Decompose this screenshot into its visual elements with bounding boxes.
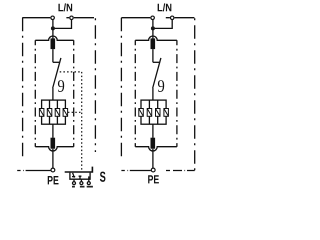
outer enclosure bottom edge (right) <box>121 170 194 172</box>
node junction (right) <box>151 26 155 30</box>
varistor cell 2 (right) <box>147 109 152 117</box>
label PE (left) <box>48 176 59 184</box>
thermal disconnector contact F1 (right, filled) <box>151 38 156 49</box>
node junction (left) <box>51 26 55 30</box>
wire: block to disconnector F2 (right) <box>152 124 154 138</box>
varistor cell 1 (left) <box>39 109 44 117</box>
varistor cell 4 (left) <box>63 109 68 117</box>
terminal PE (right) <box>151 168 155 172</box>
wire: block to disconnector F2 (left) <box>52 124 54 138</box>
outer enclosure top edge (right) <box>121 17 194 19</box>
remote signalling contact S: body box <box>70 173 90 180</box>
varistor cell 3 (right) <box>156 109 161 117</box>
inner module box top edge with hop over wire (right) <box>135 36 177 40</box>
wire: F2 to PE terminal (right) <box>152 149 154 168</box>
terminal L (right module) <box>151 16 155 20</box>
thermal disconnector contact F2 (right, filled) <box>151 138 156 149</box>
terminal N (left module) <box>70 16 74 20</box>
terminal N (right module) <box>170 16 174 20</box>
thermal trip label theta (left) <box>58 80 64 92</box>
disconnect switch blade (right) <box>153 58 161 88</box>
varistor cell 1 (right) <box>139 109 144 117</box>
inner module box left edge (right) <box>134 40 136 146</box>
varistor cell 3 (left) <box>55 109 60 117</box>
remote signalling contact S: actuator bar <box>65 167 93 172</box>
disconnect switch fixed contact bar (left) <box>53 61 60 63</box>
varistor block dividers (right) <box>149 100 157 124</box>
contact S terminal 1 <box>73 179 76 184</box>
contact S terminal 2 <box>80 179 83 184</box>
thermal linkage dotted line horizontal (left) <box>60 71 82 73</box>
wire: switch to varistor block (left) <box>52 88 54 100</box>
remote signalling contact S: middle contact tick <box>79 176 89 179</box>
inner module box bottom edge with hop under fuse (left) <box>35 147 73 151</box>
contact S terminal labels <box>72 186 93 188</box>
outer enclosure left edge (left) <box>22 18 24 161</box>
thermal linkage dotted line vertical to contact S (left) <box>81 72 83 171</box>
inner module box right edge (right) <box>176 40 178 146</box>
wire: junction down to disconnector F1 (right) <box>152 28 154 38</box>
thermal trip label theta (right) <box>158 80 164 92</box>
outer enclosure top edge (left) <box>22 17 94 19</box>
inner module box bottom edge with hop under fuse (right) <box>135 147 177 151</box>
varistor block outline (left) <box>42 100 66 124</box>
label PE (right) <box>148 175 159 183</box>
remote signalling contact S: changeover blade <box>72 173 75 178</box>
label S <box>100 172 106 182</box>
varistor cell 4 (right) <box>164 109 169 117</box>
varistor cell 2 (left) <box>47 109 52 117</box>
varistor block outline (right) <box>141 100 166 124</box>
disconnect switch fixed contact bar (right) <box>153 61 160 63</box>
inner module box right edge (left) <box>73 40 75 146</box>
wire: F1 to switch (right) <box>152 49 154 62</box>
wire: F2 to PE terminal (left) <box>52 149 54 168</box>
inner module box top edge with hop over wire (left) <box>35 36 73 40</box>
varistor block dividers (left) <box>50 100 58 124</box>
wire: L terminal down to junction (right) <box>152 20 154 29</box>
wire: L terminal down to junction (left) <box>52 20 54 29</box>
outer enclosure left edge (right) <box>120 18 122 161</box>
terminal L (left module) <box>51 16 55 20</box>
wire: N terminal down and across to junction (left) <box>53 20 72 29</box>
label L/N (left) <box>58 3 72 11</box>
wire: junction down to disconnector F1 (left) <box>52 28 54 38</box>
label L/N (right) <box>158 3 172 11</box>
thermal disconnector contact F1 (left, filled) <box>51 38 56 49</box>
wire: switch to varistor block (right) <box>152 88 154 100</box>
linkage dotted stub from varistor block (left) <box>68 111 81 113</box>
contact S terminal 3 <box>87 179 90 184</box>
outer enclosure right edge (right) <box>194 18 196 171</box>
disconnect switch blade (left) <box>53 58 61 88</box>
outer enclosure bottom edge (left) <box>17 170 50 172</box>
outer enclosure right edge (left) <box>94 18 96 152</box>
terminal PE (left) <box>51 168 55 172</box>
wire: N terminal down and across to junction (right) <box>153 20 172 29</box>
inner module box left edge (left) <box>34 40 36 146</box>
wire: F1 to switch (left) <box>52 49 54 62</box>
thermal disconnector contact F2 (left, filled) <box>51 138 56 149</box>
